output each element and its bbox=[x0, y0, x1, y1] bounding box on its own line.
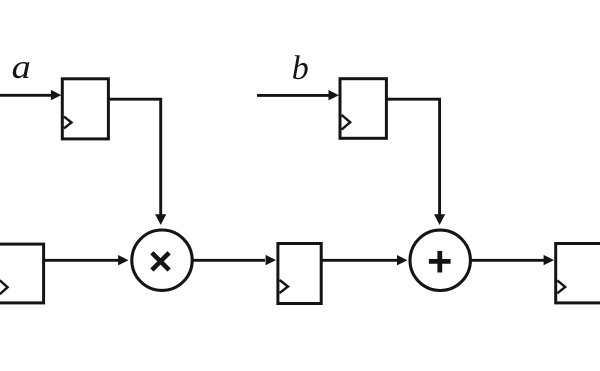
arrowhead b input bbox=[329, 90, 339, 100]
register R2 (b delay) bbox=[340, 79, 386, 139]
register R3 (bottom-left, clipped) bbox=[0, 244, 44, 303]
wire R3 to multiplier bbox=[44, 259, 118, 262]
wire b input bbox=[257, 94, 330, 97]
arrowhead into R5 bbox=[544, 255, 554, 265]
wire adder to R5 bbox=[471, 259, 544, 262]
arrowhead into multiplier left bbox=[118, 255, 128, 265]
adder U2 bbox=[410, 230, 470, 290]
svg-text:b: b bbox=[292, 50, 309, 87]
register R1 (a delay) bbox=[62, 79, 108, 139]
clock pin R3 bbox=[0, 280, 8, 294]
plus symbol bbox=[429, 251, 451, 273]
clock pin R4 bbox=[280, 280, 289, 293]
clock pin R2 bbox=[342, 115, 351, 130]
times symbol bbox=[152, 253, 169, 270]
svg-text:a: a bbox=[12, 48, 31, 85]
clock pin R5 bbox=[557, 280, 565, 293]
arrowhead into adder top bbox=[434, 214, 445, 225]
multiplier U1 bbox=[132, 230, 192, 290]
wire a input bbox=[0, 94, 52, 97]
register R4 (product delay) bbox=[278, 244, 321, 304]
arrowhead into adder left bbox=[397, 255, 407, 265]
arrowhead a input bbox=[51, 90, 61, 100]
arrowhead into multiplier top bbox=[155, 214, 166, 225]
register R5 (bottom-right, clipped) bbox=[556, 244, 600, 303]
clock pin R1 bbox=[64, 117, 72, 129]
wire R1 to multiplier bbox=[109, 99, 161, 214]
wire multiplier to R4 bbox=[193, 259, 265, 262]
wire R2 to adder bbox=[386, 99, 439, 214]
arrowhead into R4 bbox=[266, 255, 276, 265]
wire R4 to adder bbox=[323, 259, 398, 262]
